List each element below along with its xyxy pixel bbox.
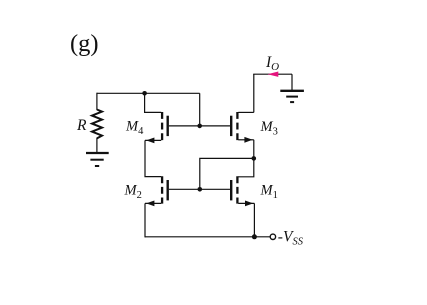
transistor M1 [231, 176, 254, 206]
wire R bottom lead [96, 138, 98, 153]
transistor M4 [145, 112, 168, 143]
transistor M2 [145, 176, 168, 206]
wire gate line M2-M1 [169, 188, 230, 190]
wire node C to gate line 2 [200, 158, 254, 189]
wire bottom rail [145, 236, 270, 238]
wire Io output [253, 73, 292, 75]
node C: M3 source / M1 drain / gate2 junction [252, 156, 257, 161]
terminal -Vss (open circle) [270, 234, 275, 239]
wire M1 source drop [253, 203, 255, 237]
wire top rail [97, 92, 200, 94]
current arrow Io (magenta) [268, 72, 279, 77]
ground under R [86, 153, 109, 166]
wire M3 drain riser [253, 74, 255, 112]
transistor M3 [231, 112, 254, 143]
node A: top rail / M4 drain junction [142, 91, 147, 96]
wire M4 drain riser [145, 93, 162, 112]
wire top rail corner down to gate line [199, 93, 201, 126]
resistor R [92, 110, 102, 139]
node D: gate line 2 junction [198, 187, 203, 192]
node E: bottom rail / M1 source junction [252, 234, 257, 239]
wire R top lead [96, 93, 98, 110]
wire M4 source to M2 drain [145, 140, 161, 176]
wire right ground lead [291, 74, 293, 90]
svg-text:R: R [76, 117, 87, 134]
node B: gate line / top rail junction [197, 124, 202, 129]
ground right (Io return) [280, 91, 304, 102]
wire gate line M4-M3 [169, 125, 230, 127]
svg-text:(g): (g) [70, 30, 99, 57]
wire M2 source drop [144, 203, 146, 237]
wire M3 source drop [253, 140, 255, 159]
wire node C to M1 drain [238, 158, 254, 176]
